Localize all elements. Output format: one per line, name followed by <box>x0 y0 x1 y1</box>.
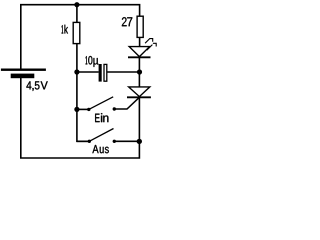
resistor R2 body <box>137 16 143 37</box>
switch S1 Ein left lead <box>77 108 89 110</box>
switch S1 Ein arm <box>89 97 113 110</box>
wire R1 top lead <box>76 5 78 23</box>
label 4,5V <box>26 81 47 90</box>
node junction top rail <box>74 2 79 7</box>
switch S1 Ein right contact <box>113 107 116 110</box>
thyristor V1 cathode bar <box>127 96 151 98</box>
wire top rail: battery + up and across to R2 <box>21 5 140 69</box>
wire capacitor left lead <box>77 71 99 73</box>
wire capacitor right lead <box>107 71 139 73</box>
switch S2 Aus right lead <box>114 140 139 142</box>
wire left/mid branch: R1 bottom down to Aus corner <box>77 44 89 142</box>
capacitor C1 plate left (+, filled) <box>99 64 102 82</box>
label 10µ <box>86 56 99 67</box>
LED D1 light arrow lower <box>147 43 156 50</box>
LED D1 triangle <box>129 47 149 57</box>
label Ein <box>95 113 108 122</box>
LED D1 cathode bar <box>128 56 151 58</box>
switch S2 Aus arm <box>89 129 113 142</box>
resistor R1 body <box>73 22 80 43</box>
wire LED to resistor R2 lead <box>139 37 141 46</box>
label Aus <box>92 145 108 153</box>
node junction Aus/cathode rail <box>137 139 142 144</box>
label 27 <box>122 17 132 26</box>
switch S2 Aus left contact <box>88 140 91 143</box>
switch S1 Ein left contact <box>87 108 90 111</box>
thyristor V1 triangle <box>129 87 150 97</box>
capacitor C1 plate right (-, hollow) <box>104 64 107 81</box>
node junction Ein branch <box>74 107 79 112</box>
node junction capacitor branch <box>74 69 79 74</box>
wire LED cathode to junction lead <box>138 57 140 87</box>
switch S2 Aus right contact <box>113 140 116 143</box>
switch S2 Aus left lead <box>77 140 89 142</box>
label 1k <box>62 25 68 34</box>
wire bottom rail: battery - down, across, up to thyristor cathode <box>21 78 140 158</box>
battery B1 plate long (+) <box>1 69 46 71</box>
battery B1 plate short (-) <box>11 74 35 79</box>
LED D1 light arrow upper <box>145 39 153 44</box>
thyristor V1 gate lead <box>114 97 139 109</box>
node junction capacitor/LED/thyristor <box>137 69 142 74</box>
